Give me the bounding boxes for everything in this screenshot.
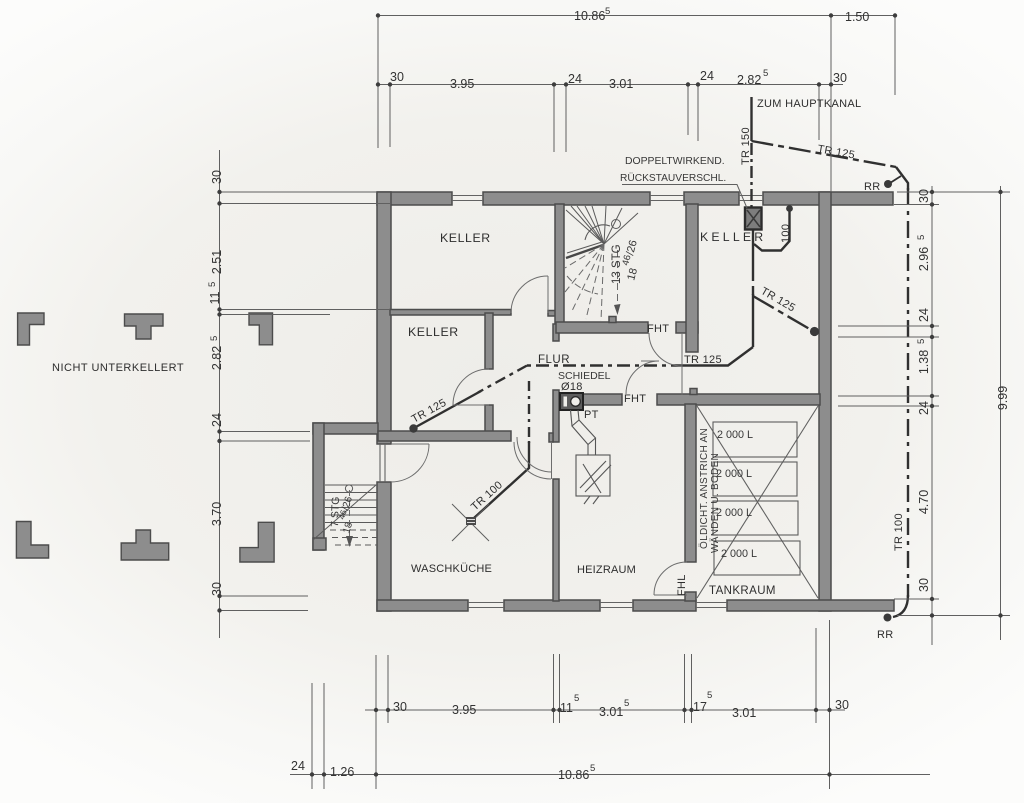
dim extension horizontal y326 right [838, 325, 939, 327]
svg-text:KELLER: KELLER [700, 230, 766, 244]
pipe TR100 waschkueche dashed vertical [528, 381, 530, 443]
dim extension vertical x390 [389, 85, 391, 148]
backflow valve box (Rueckstauverschluss) [745, 208, 762, 230]
svg-text:18: 18 [625, 267, 640, 282]
wall bottom exterior segment C [633, 600, 696, 611]
pillar footing P5 [121, 530, 169, 560]
window bottom wall heizraum [600, 602, 633, 604]
pipe TR125 corridor dashed run [527, 364, 684, 366]
svg-text:HEIZRAUM: HEIZRAUM [577, 564, 636, 576]
svg-text:1.38: 1.38 [917, 350, 931, 374]
dim chain right C1 vertical line [931, 186, 933, 645]
svg-text:24: 24 [291, 759, 305, 773]
svg-text:5: 5 [207, 282, 218, 287]
oil tank 3 [713, 501, 798, 535]
dim extension vertical x388 bottom [387, 655, 389, 723]
dim extension horizontal y599 right [894, 598, 939, 600]
svg-text:WASCHKÜCHE: WASCHKÜCHE [411, 563, 492, 575]
dim extension horizontal y309 left [220, 309, 391, 311]
junction dot at right wall TR125 [810, 327, 819, 336]
dim chain left vertical line [219, 150, 221, 638]
wall interior tankraum top row [657, 394, 820, 405]
stair dashed walk arc [567, 276, 598, 294]
dim extension horizontal y396 right [838, 395, 939, 397]
svg-text:PT: PT [584, 409, 599, 421]
svg-text:10.86: 10.86 [574, 9, 605, 23]
pillar footing P2 [125, 314, 164, 339]
dim extension vertical x378 [377, 16, 379, 149]
floor drain X in waschkueche [452, 504, 489, 541]
svg-text:KELLER: KELLER [440, 231, 491, 245]
svg-text:5: 5 [624, 698, 629, 709]
dim extension horizontal y192 right [897, 191, 1010, 193]
svg-text:30: 30 [210, 170, 224, 184]
dim extension horizontal y610 left [220, 610, 309, 612]
svg-text:30: 30 [390, 70, 404, 84]
svg-text:11: 11 [208, 291, 222, 304]
svg-text:/26: /26 [624, 239, 640, 257]
svg-text:30: 30 [917, 189, 931, 203]
junction dot 100 branch [786, 205, 793, 212]
wall interior V5 tankraum left upper [685, 404, 696, 562]
pillar footing P3 [249, 313, 273, 345]
wall right exterior [819, 192, 831, 611]
svg-text:FHT: FHT [647, 323, 669, 335]
dim extension horizontal y615 right [897, 615, 1010, 617]
svg-text:24: 24 [210, 413, 224, 427]
svg-text:TR 125: TR 125 [816, 143, 855, 161]
svg-text:5: 5 [605, 6, 610, 17]
svg-text:24: 24 [700, 69, 714, 83]
wall interior V2 stair room left wall [555, 204, 564, 324]
svg-text:2 000 L: 2 000 L [716, 468, 752, 480]
stair dashed walk line [349, 490, 351, 543]
dim extension horizontal y192 left [220, 191, 378, 193]
svg-text:2.51: 2.51 [210, 250, 224, 274]
tank cross X in tankraum [697, 406, 818, 598]
pipe top RR spur [890, 176, 901, 183]
svg-text:TR 100: TR 100 [893, 513, 905, 551]
svg-text:3.70: 3.70 [210, 502, 224, 526]
door heizraum FHT [641, 360, 659, 362]
chimney SCHIEDEL block [560, 393, 583, 410]
svg-text:100: 100 [780, 224, 792, 243]
oil tank 2 [713, 462, 797, 496]
wall interior H2 (flur south wall) [378, 431, 511, 441]
dim extension vertical x829 bottom long [829, 620, 831, 789]
dim extension vertical x684 bottom [684, 654, 686, 723]
svg-text:2 000 L: 2 000 L [717, 429, 753, 441]
wall stair porch foot [313, 538, 326, 550]
door keller top-left to stair room [547, 276, 549, 313]
dim chain bottom rowB line [365, 709, 845, 711]
svg-text:TR 150: TR 150 [740, 127, 752, 165]
stair center arc [585, 225, 610, 240]
stair section diagonal [313, 485, 376, 540]
pipe TR100 right side vertical dashed [907, 188, 909, 597]
svg-text:Ø18: Ø18 [561, 381, 583, 393]
stair section circle [345, 485, 352, 492]
dim extension vertical x688 [687, 85, 689, 136]
door stair room FHT [681, 333, 683, 395]
dim extension vertical x698 [697, 85, 699, 142]
svg-text:3.01: 3.01 [609, 77, 633, 91]
dim extension vertical x324 bottom [323, 683, 325, 789]
pipe TR150 below valve [752, 229, 754, 272]
pillar footing P4 [16, 522, 48, 559]
door jamb lines left wall entrance [379, 444, 381, 482]
dim extension vertical x819 [818, 85, 820, 141]
stair dashed treads [330, 529, 377, 531]
dim extension vertical x895 long [894, 16, 896, 96]
exterior stair 7 STG [313, 485, 377, 545]
boiler in heizraum [576, 455, 611, 504]
door tankraum FHL [654, 594, 687, 596]
dim chain bottom rowA line [290, 774, 930, 776]
svg-text:5: 5 [763, 68, 768, 79]
wall interior H1 stub at stair wall [548, 311, 556, 317]
wall interior V1 upper (left keller right wall) [485, 313, 493, 369]
pipe TR100 waschkueche solid [474, 441, 529, 518]
DIMS_START [220, 16, 1011, 790]
svg-text:WÄNDEN U. BODEN: WÄNDEN U. BODEN [709, 453, 721, 553]
dim extension horizontal y203 left [220, 203, 391, 205]
wall bottom exterior segment A [377, 600, 468, 611]
dim extension vertical x691 bottom [691, 654, 693, 723]
pipe 100 branch from top wall [754, 209, 790, 251]
wall stair porch top [313, 423, 378, 434]
stair walk line arrow [614, 304, 621, 315]
svg-text:5: 5 [590, 763, 595, 774]
svg-text:3.95: 3.95 [450, 77, 474, 91]
svg-text:24: 24 [917, 308, 931, 322]
svg-text:TR 125: TR 125 [759, 285, 798, 314]
svg-text:3.01: 3.01 [732, 706, 756, 720]
svg-text:11: 11 [560, 701, 573, 715]
wall interior V1 lower [485, 405, 493, 433]
pipe bend into corridor [684, 347, 753, 366]
svg-text:FHT: FHT [624, 393, 646, 405]
dim chain right C2 vertical line (9.99) [1000, 186, 1002, 640]
svg-text:2.82: 2.82 [210, 346, 224, 370]
dim extension horizontal y406 right [838, 405, 939, 407]
PIPES_START [414, 97, 908, 617]
pipe TR150 riser to main sewer (solid top) [750, 97, 752, 141]
dim extension horizontal y441 left [220, 440, 311, 442]
RR dot bottom right [884, 614, 892, 622]
wall interior V3 middle keller left wall [686, 204, 698, 352]
wall top exterior segment D (1.50 m extension) [763, 192, 893, 205]
wall bottom exterior segment B [504, 600, 600, 611]
floor drain square [466, 517, 476, 525]
wall interior upper FHT row east part [676, 322, 698, 333]
svg-text:5: 5 [916, 235, 927, 240]
svg-text:1.50: 1.50 [845, 10, 869, 24]
pillar footing P1 [18, 313, 44, 345]
dim extension vertical x816 bottom [815, 628, 817, 723]
dim extension horizontal y204 right [894, 204, 939, 206]
wall top exterior segment B [483, 192, 650, 205]
svg-text:/26: /26 [340, 495, 355, 512]
door house entrance from porch [391, 443, 429, 445]
svg-text:9.99: 9.99 [996, 386, 1010, 410]
svg-text:TR 125: TR 125 [684, 354, 722, 366]
svg-text:2.96: 2.96 [917, 247, 931, 271]
svg-text:5: 5 [209, 336, 220, 341]
pipe TR125 top branch to hauptkanal [752, 141, 897, 167]
svg-text:TANKRAUM: TANKRAUM [709, 585, 776, 597]
leader line from rueckstau label to valve [622, 185, 747, 209]
svg-text:2 000 L: 2 000 L [721, 548, 757, 560]
window bottom wall waschkueche [468, 602, 504, 604]
svg-text:10.86: 10.86 [558, 768, 589, 782]
wall pipe niche bump on upper FHT row [609, 317, 616, 323]
wall pipe niche bump on tankraum top row [690, 389, 697, 395]
dim extension horizontal y337 right [838, 336, 939, 338]
svg-text:30: 30 [833, 71, 847, 85]
svg-text:NICHT UNTERKELLERT: NICHT UNTERKELLERT [52, 362, 184, 374]
svg-text:4.70: 4.70 [917, 490, 931, 514]
wall interior stair room bottom (upper FHT row west part) [556, 322, 648, 333]
dim chain top row2 line [378, 84, 843, 86]
svg-text:5: 5 [574, 693, 579, 704]
pipe TR125 corridor diagonal dashed [478, 366, 527, 393]
pillar footing P6 [240, 522, 274, 562]
dim extension vertical x312 bottom [311, 683, 313, 789]
svg-text:RR: RR [864, 181, 881, 193]
dim extension horizontal y596 left [220, 595, 309, 597]
svg-text:RR: RR [877, 629, 894, 641]
stair treads solid rays [566, 210, 604, 244]
svg-text:KELLER: KELLER [408, 325, 459, 339]
spiral stair 13 STG in stair room [566, 206, 638, 258]
dim extension vertical x831 long [830, 16, 832, 192]
RR dot top right [884, 180, 892, 188]
stair section cut double line [566, 245, 603, 258]
dim extension vertical x566 [565, 85, 567, 153]
stair newel circle [612, 220, 621, 229]
svg-text:RÜCKSTAUVERSCHL.: RÜCKSTAUVERSCHL. [620, 172, 726, 184]
window lines valve gap top wall [739, 195, 763, 197]
svg-text:FHL: FHL [676, 574, 688, 596]
svg-text:FLUR: FLUR [538, 354, 570, 366]
wall interior V4 heizraum left lower [553, 479, 559, 601]
svg-text:30: 30 [393, 700, 407, 714]
wall interior chimney row (west of FHT door) [583, 394, 622, 405]
svg-text:30: 30 [835, 698, 849, 712]
window bottom wall tankraum [696, 602, 727, 604]
svg-text:3.95: 3.95 [452, 703, 476, 717]
svg-text:30: 30 [210, 582, 224, 596]
window top wall stair [650, 195, 684, 197]
door arcs [391, 276, 687, 595]
svg-text:5: 5 [916, 339, 927, 344]
pipe TR150 solid middle [752, 294, 754, 347]
svg-text:24: 24 [917, 401, 931, 415]
wall stair porch left [313, 423, 324, 550]
dim extension horizontal y431 left [220, 431, 311, 433]
pipe bend at top RR [896, 167, 908, 190]
dim chain top row1 line [378, 15, 895, 17]
svg-text:3.01: 3.01 [599, 705, 623, 719]
junction dot at flur wall TR125 [409, 424, 417, 432]
oil tank 4 [714, 541, 800, 575]
svg-text:1.26: 1.26 [330, 765, 354, 779]
dim extension vertical x559 bottom [559, 654, 561, 723]
exterior stair arrow [346, 536, 353, 547]
stair treads [325, 484, 377, 486]
dim extension vertical x376 bottom [375, 655, 377, 789]
WALLS_START [313, 192, 894, 611]
door heizraum to waschkueche in V4 [551, 442, 553, 479]
pipe TR125 middle keller branch [753, 296, 813, 331]
svg-text:ÖLDICHT. ANSTRICH AN: ÖLDICHT. ANSTRICH AN [698, 428, 710, 549]
wall interior V4 stub [549, 433, 553, 442]
pipe TR150 dashed to valve [750, 143, 752, 207]
pipe bottom RR connector [893, 595, 908, 617]
wall interior H1 between the two left kellers [390, 310, 511, 316]
wall left exterior lower segment [377, 482, 391, 611]
wall bottom exterior segment D (with right extension) [727, 600, 894, 611]
wall interior V4 heizraum left upper [553, 390, 559, 442]
svg-text:ZUM HAUPTKANAL: ZUM HAUPTKANAL [757, 98, 861, 110]
window top wall left [452, 195, 483, 197]
svg-text:24: 24 [568, 72, 582, 86]
dim extension horizontal y314 left [220, 314, 331, 316]
svg-text:5: 5 [707, 690, 712, 701]
wall top exterior segment A [377, 192, 452, 205]
wall interior V5 tankraum left below door [685, 592, 696, 601]
svg-text:DOPPELTWIRKEND.: DOPPELTWIRKEND. [625, 156, 725, 167]
wall top exterior segment C [684, 192, 739, 205]
wall left exterior upper segment [377, 192, 391, 444]
oil tank 1 [713, 422, 797, 457]
svg-text:30: 30 [917, 578, 931, 592]
dim dots [217, 13, 1002, 776]
svg-text:2.82: 2.82 [737, 73, 761, 87]
dim extension vertical x554 [553, 85, 555, 153]
door left keller [453, 404, 489, 406]
door flur to waschkueche [517, 437, 552, 472]
window lines in wall openings [380, 196, 763, 608]
wall interior V2 foot [553, 324, 559, 341]
stair treads dashed rays [565, 244, 604, 268]
dim extension vertical x553 bottom [553, 654, 555, 723]
svg-text:17: 17 [693, 700, 707, 714]
stair dashed walk line [617, 250, 619, 316]
flue duct from chimney to boiler [571, 410, 596, 455]
svg-text:2 000 L: 2 000 L [716, 507, 752, 519]
pipe TR125 corridor diagonal solid [414, 391, 481, 428]
